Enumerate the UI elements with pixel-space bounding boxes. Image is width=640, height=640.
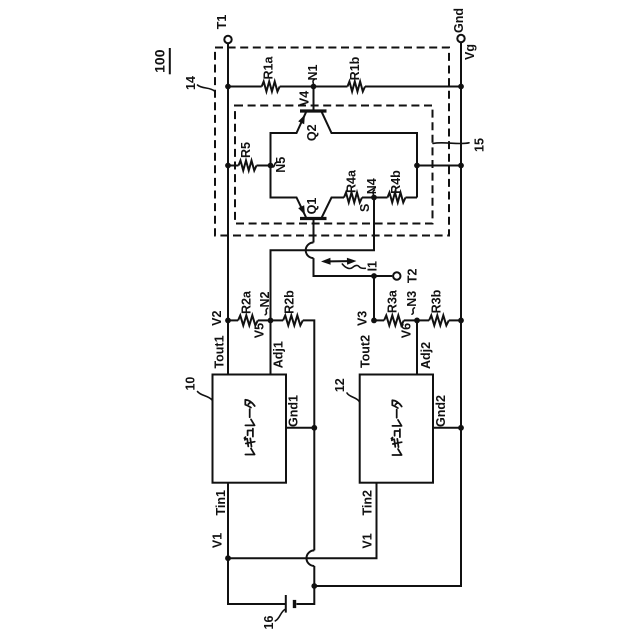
wire collector join to Gnd rail xyxy=(417,165,461,167)
wire hop (crossover) at N4-N2 wire xyxy=(306,242,314,258)
leader squiggle I1 xyxy=(342,264,365,268)
svg-text:Vg: Vg xyxy=(463,44,477,60)
svg-text:T1: T1 xyxy=(215,15,229,30)
wire top row right xyxy=(365,86,461,88)
svg-text:16: 16 xyxy=(262,616,276,630)
svg-text:Tout1: Tout1 xyxy=(212,335,226,368)
leader tilde N3 xyxy=(412,308,414,314)
dashed block 15 (inner transistor box) xyxy=(235,106,433,224)
transistor Q1 emitter arrow xyxy=(298,205,305,215)
transistor Q2 emitter arrow xyxy=(298,115,305,125)
svg-text:Adj1: Adj1 xyxy=(272,341,286,368)
wire V1 row (Tin1 to Tin2) xyxy=(228,483,377,559)
svg-text:Adj2: Adj2 xyxy=(419,342,433,369)
wire N4 to N2 (sense) xyxy=(271,198,375,321)
svg-text:V6: V6 xyxy=(400,323,414,338)
svg-text:R4b: R4b xyxy=(389,170,403,194)
svg-text:15: 15 xyxy=(473,138,487,152)
dashed block 14 (outer resistor-network box) xyxy=(215,48,449,236)
svg-text:N5: N5 xyxy=(274,157,288,173)
junction collectors xyxy=(414,163,420,169)
regulator text (katakana) block 12 xyxy=(391,400,401,455)
svg-text:V1: V1 xyxy=(211,533,225,548)
wire V3 to R3a xyxy=(374,319,384,321)
resistor R1a xyxy=(262,82,280,92)
node N5 xyxy=(268,163,274,169)
resistor R1b xyxy=(348,82,366,92)
svg-text:N4: N4 xyxy=(365,178,379,194)
junction T2 node xyxy=(371,273,377,279)
junction Gnd2 xyxy=(458,425,464,431)
svg-text:Tin1: Tin1 xyxy=(214,490,228,516)
wire R2a to N2 xyxy=(258,319,271,321)
terminal Gnd xyxy=(457,35,464,42)
svg-text:Q1: Q1 xyxy=(305,198,319,215)
svg-text:R3a: R3a xyxy=(386,289,400,313)
junction R1b-Gnd xyxy=(458,84,464,90)
leader tilde N4 xyxy=(372,190,374,196)
regulator block 10 xyxy=(213,375,287,483)
wire N3 to R3b xyxy=(417,319,429,321)
resistor R4b xyxy=(388,193,406,203)
junction battery-Gnd xyxy=(311,583,317,589)
wire Q1 base to T2 row xyxy=(314,258,393,276)
leader line to battery 16 xyxy=(275,609,285,621)
svg-text:R2a: R2a xyxy=(240,290,254,314)
wire hop (crossover) at Tin1-Tin2 wire xyxy=(306,550,314,566)
transistor Q2 collector path xyxy=(322,112,417,197)
leader line to block 10 xyxy=(198,392,213,401)
wire V2 to R2a xyxy=(228,319,238,321)
wire R3a to N3 xyxy=(404,319,417,321)
svg-text:N1: N1 xyxy=(306,64,320,80)
node V1 xyxy=(225,555,231,561)
transistor Q2 base bar xyxy=(300,109,327,112)
wire N4 to R4b xyxy=(374,197,388,199)
wire T1 rail (T1 to Tout1) xyxy=(227,43,229,374)
svg-text:R2b: R2b xyxy=(283,290,297,314)
battery 16 long plate xyxy=(285,595,287,613)
node N2 xyxy=(268,318,274,324)
wire Gnd2 xyxy=(433,427,461,429)
wire Gnd1 column to battery xyxy=(296,566,314,604)
svg-text:100: 100 xyxy=(152,49,168,73)
svg-text:Tout2: Tout2 xyxy=(359,335,373,368)
svg-text:V1: V1 xyxy=(361,533,375,548)
svg-text:V4: V4 xyxy=(298,91,312,106)
terminal T2 xyxy=(393,272,400,279)
junction T1-R5 xyxy=(225,163,231,169)
svg-text:V2: V2 xyxy=(210,311,224,326)
wire top row middle xyxy=(280,86,348,88)
resistor R2b xyxy=(283,315,303,325)
junction Gnd rail row2 xyxy=(458,318,464,324)
wire R4b right lead xyxy=(406,197,418,199)
leader tilde N2 xyxy=(265,308,267,314)
wire T2 node to V3 xyxy=(373,276,375,320)
regulator block 12 xyxy=(360,375,433,483)
wire Gnd1 xyxy=(286,427,314,429)
regulator text (katakana) block 10 xyxy=(244,400,254,455)
transistor Q2 emitter path to N5 xyxy=(271,112,307,165)
transistor Q1 base bar xyxy=(300,217,327,220)
junction Gnd1 xyxy=(311,425,317,431)
wire Gnd rail xyxy=(314,42,461,586)
svg-text:N3: N3 xyxy=(405,291,419,307)
node N4 xyxy=(371,195,377,201)
leader tilde N5 xyxy=(273,163,277,167)
resistor R5 xyxy=(239,161,257,171)
svg-text:14: 14 xyxy=(184,76,198,90)
leader line to box 15 xyxy=(433,142,469,145)
wire Tin1 down to battery xyxy=(228,483,286,604)
leader tilde N1 xyxy=(312,79,314,85)
wire Q1 base down xyxy=(313,219,315,243)
resistor R3a xyxy=(384,315,404,325)
svg-text:R1a: R1a xyxy=(262,55,276,79)
resistor R2a xyxy=(238,315,258,325)
wire top row left xyxy=(228,86,262,88)
transistor Q1 collector path xyxy=(322,198,344,218)
wire N2 to R2b xyxy=(271,319,284,321)
junction Gnd rail row N5 xyxy=(458,163,464,169)
leader line to block 12 xyxy=(347,393,359,402)
wire N2 to Adj1 xyxy=(270,320,272,374)
svg-text:R5: R5 xyxy=(239,142,253,158)
svg-text:Tin2: Tin2 xyxy=(361,490,375,516)
node N1 xyxy=(311,84,317,90)
svg-text:I1: I1 xyxy=(366,261,380,271)
svg-text:R3b: R3b xyxy=(430,289,444,313)
svg-text:N2: N2 xyxy=(258,291,272,307)
wire V4 (N1 to Q2 base) xyxy=(313,87,315,112)
wire R3b to Gnd rail xyxy=(449,319,461,321)
svg-text:R4a: R4a xyxy=(345,169,359,193)
node N3 xyxy=(414,318,420,324)
battery 16 short thick plate xyxy=(293,600,296,608)
wire R5 right lead xyxy=(257,165,271,167)
resistor R4a xyxy=(344,193,362,203)
wire R4a to N4 xyxy=(362,197,374,199)
svg-text:Gnd: Gnd xyxy=(452,8,466,33)
current arrow I1 xyxy=(329,260,350,262)
svg-text:S: S xyxy=(358,204,372,212)
leader line to box 14 xyxy=(198,85,215,91)
transistor Q1 emitter path to N5 xyxy=(271,166,307,218)
svg-text:Gnd1: Gnd1 xyxy=(287,395,301,427)
node V3 xyxy=(371,318,377,324)
node V2 xyxy=(225,318,231,324)
svg-text:V5: V5 xyxy=(253,323,267,338)
svg-text:10: 10 xyxy=(183,377,197,391)
wire R5 left lead xyxy=(228,165,239,167)
svg-text:Q2: Q2 xyxy=(305,124,319,141)
svg-text:12: 12 xyxy=(333,378,347,392)
junction T1-R1a xyxy=(225,84,231,90)
svg-text:Gnd2: Gnd2 xyxy=(434,395,448,427)
svg-text:R1b: R1b xyxy=(348,56,362,80)
resistor R3b xyxy=(429,315,449,325)
wire R2b down to Gnd1 junction xyxy=(303,320,315,550)
svg-text:T2: T2 xyxy=(406,268,420,283)
terminal T1 xyxy=(224,36,231,43)
svg-text:V3: V3 xyxy=(355,311,369,326)
wire N3 to Adj2 xyxy=(416,320,418,374)
